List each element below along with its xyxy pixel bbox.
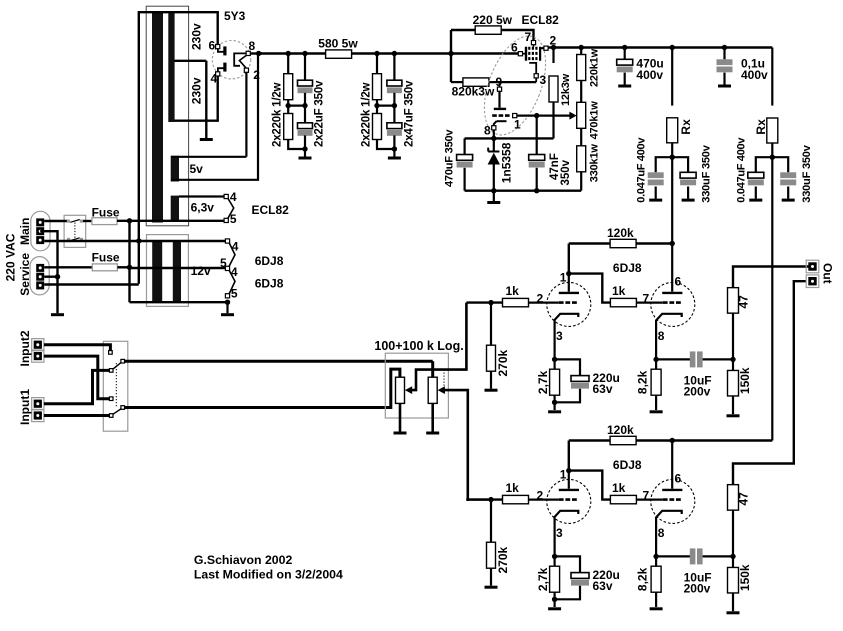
heater pin 4 (6DJ8 #1) bbox=[225, 239, 229, 243]
resistor 1k grid A U1 bbox=[503, 298, 529, 306]
wire: node to 150k U2 bbox=[732, 556, 734, 567]
junction: cathode B U2 bbox=[653, 554, 658, 559]
triode A grid dashes U2 bbox=[559, 498, 578, 501]
wire: 47nF to ground line bbox=[536, 168, 538, 191]
junction: fuse1 output bbox=[127, 218, 132, 223]
wire: filter2 cap top bbox=[393, 54, 395, 81]
svg-text:230v: 230v bbox=[189, 77, 203, 104]
svg-text:470k1w: 470k1w bbox=[589, 101, 601, 140]
capacitor 10uF 200v U1 bbox=[690, 351, 696, 367]
ECL82 pin 9 (triode grid) bbox=[497, 87, 501, 91]
svg-text:Last Modified on 3/2/2004: Last Modified on 3/2/2004 bbox=[194, 568, 343, 582]
wire: 220u bottom loop U2 bbox=[555, 586, 580, 600]
wire: Main pin3 to switch bbox=[44, 240, 83, 242]
ground (cathode A) U2 bbox=[548, 607, 561, 610]
wire: 2.7k bottom U1 bbox=[553, 395, 555, 402]
switch S2 common 1 bbox=[121, 359, 125, 363]
svg-text:220 5w: 220 5w bbox=[473, 13, 513, 27]
wire: plate A to 1k grid B U1 bbox=[569, 274, 611, 303]
wire: 12k3w to cathode node bbox=[552, 102, 554, 138]
triode B grid dashes U2 bbox=[663, 498, 682, 501]
wire: Rx1 down to 120k node bbox=[671, 143, 673, 244]
resistor 8,2k U2 bbox=[651, 566, 661, 592]
wire: 330uF to ground (1) bbox=[687, 187, 689, 199]
wire: 1k to grid B U2 bbox=[636, 499, 662, 501]
wire: switch to Fuse (main) bbox=[83, 220, 92, 222]
transformer T1 primary winding bar bbox=[152, 11, 163, 223]
wire: Input2 pin1 to NC contact bbox=[44, 345, 111, 351]
transformer T1 6.3v winding bar bbox=[171, 196, 179, 222]
svg-text:63v: 63v bbox=[593, 382, 613, 396]
wire: 8.2k to ground U2 bbox=[655, 592, 657, 607]
junction: 220k midpoint bbox=[286, 103, 291, 108]
svg-text:6: 6 bbox=[511, 41, 518, 55]
wire: Main pin1 to switch bbox=[44, 220, 67, 222]
resistor 220k1w bbox=[577, 55, 586, 81]
transformer T1 230v secondary winding bar bbox=[168, 11, 174, 122]
wire: cap bottom to ground (2) bbox=[393, 135, 395, 156]
heater pin 5 (6DJ8 #2) bbox=[225, 294, 229, 298]
wire: 10uF to 150k U1 bbox=[703, 358, 733, 360]
svg-text:ECL82: ECL82 bbox=[522, 13, 560, 27]
svg-text:Input2: Input2 bbox=[18, 330, 32, 366]
switch S2 NC contact bbox=[109, 351, 113, 355]
ground (0.047uF 1) bbox=[649, 199, 662, 202]
capacitor 47nF 350v bbox=[529, 155, 545, 168]
wire: Input1 pin1 to contact A bbox=[44, 370, 109, 403]
wire: pot2 to ground bbox=[431, 403, 434, 431]
capacitor 2x22uF 350v (upper) bbox=[298, 80, 313, 93]
wiper arrow into 470k1w bbox=[569, 112, 576, 120]
svg-text:400v: 400v bbox=[741, 68, 768, 82]
wire: heater ground stub bbox=[226, 302, 228, 313]
junction: pin8 / 5v winding / rail bbox=[256, 51, 261, 56]
wire: between 22uF caps bbox=[304, 93, 306, 123]
ECL82 grid lead stub bbox=[523, 53, 526, 55]
junction: grid A / 270k U1 bbox=[488, 300, 493, 305]
junction: filter2 bottom bbox=[392, 146, 397, 151]
wire: filter2 midpoints tie bbox=[377, 104, 394, 106]
wire: pin 8 down bbox=[493, 130, 495, 139]
wire: input to grid A U1 bbox=[466, 301, 502, 303]
triode B cathode U2 bbox=[656, 511, 682, 557]
wire: pin 9 to triode anode bbox=[498, 91, 500, 107]
triode V U1A (6DJ8) envelope bbox=[547, 282, 591, 326]
wire: pot2 top lead bbox=[431, 361, 434, 377]
svg-text:200v: 200v bbox=[684, 582, 711, 596]
wire: heater midpoint tie bbox=[130, 267, 228, 269]
svg-text:7: 7 bbox=[525, 30, 532, 44]
resistor 580 5w bbox=[326, 50, 352, 58]
wire: filter1 cap top bbox=[304, 54, 306, 81]
wire: rail to ECL82 pin 6 bbox=[451, 52, 518, 54]
svg-text:2: 2 bbox=[253, 68, 260, 82]
wire: P1 wiper to channel 1 input bbox=[411, 303, 466, 391]
wire: center tap down to ground bbox=[205, 61, 207, 138]
wire: S2 out1 to pot 2 top bbox=[125, 360, 433, 363]
5Y3 pin 8 bbox=[246, 51, 250, 55]
wire: filter1 midpoints tie bbox=[288, 104, 305, 106]
wire: node to 470uF bbox=[464, 138, 466, 154]
ground (pot1) bbox=[394, 432, 407, 435]
ECL82 pin 1 bbox=[513, 114, 517, 118]
svg-text:Fuse: Fuse bbox=[92, 206, 120, 220]
svg-text:1: 1 bbox=[560, 271, 567, 285]
connector Service bbox=[30, 257, 49, 295]
svg-text:3: 3 bbox=[556, 526, 563, 540]
switch S1 gang dotted link bbox=[74, 223, 76, 240]
ECL82 grid dashes g3 bbox=[535, 47, 537, 61]
svg-text:63v: 63v bbox=[593, 579, 613, 593]
junction: 22uF midpoint bbox=[302, 103, 307, 108]
wire: rail to 470u bbox=[624, 48, 626, 60]
wire: channel 2 B+ from Rx2 bbox=[672, 439, 772, 441]
ECL82 pin 3 (cathode) bbox=[534, 74, 538, 78]
wire: 230v winding center tap bbox=[175, 60, 207, 62]
ground (cathode A) U1 bbox=[548, 410, 561, 413]
wire: decoupling branch (2) bbox=[756, 157, 788, 172]
wire: between 220k resistors bbox=[287, 100, 289, 114]
wire: rail to 12k3w bbox=[552, 48, 554, 64]
svg-text:5v: 5v bbox=[190, 162, 204, 176]
capacitor 330uF 350v (1) bbox=[680, 172, 696, 185]
junction: 220k midpoint (2) bbox=[374, 103, 379, 108]
switch S1 lever (bottom) bbox=[70, 238, 79, 241]
ECL82 grid dashes g2 bbox=[532, 47, 534, 61]
ground (filter2) bbox=[388, 157, 401, 160]
svg-text:580 5w: 580 5w bbox=[318, 37, 358, 51]
svg-text:3: 3 bbox=[556, 329, 563, 343]
junction: Rx1 / decoupling caps bbox=[670, 155, 675, 160]
ground (8.2k) U2 bbox=[650, 607, 663, 610]
svg-text:330k1w: 330k1w bbox=[589, 144, 601, 183]
potentiometer P2 wiper arrow bbox=[438, 386, 445, 394]
wire: Service pin2 to neutral bbox=[44, 276, 57, 278]
svg-text:6DJ8: 6DJ8 bbox=[613, 261, 642, 275]
wire: filter1 resistor top bbox=[287, 54, 289, 74]
5Y3 pin 4 bbox=[216, 72, 220, 76]
wire: 230v lower winding to 5Y3 pin 4 bbox=[175, 76, 218, 121]
triode A plate lead U2 bbox=[568, 471, 570, 489]
wire: filter2 resistor top bbox=[376, 54, 378, 74]
connector Input1 bbox=[32, 398, 44, 422]
wire: regulator ground line bbox=[465, 189, 582, 191]
triode V U2B (6DJ8) envelope bbox=[651, 479, 695, 523]
heater zigzag 6DJ8 #2 bbox=[229, 270, 235, 294]
junction: rail / C 2x47uF bbox=[392, 51, 397, 56]
svg-text:6: 6 bbox=[675, 275, 682, 289]
5Y3 pin 2 bbox=[244, 68, 248, 72]
junction: 2.7k / 220u bottom U1 bbox=[552, 400, 557, 405]
svg-text:150k: 150k bbox=[738, 367, 752, 394]
heater pin 4 (ECL82) bbox=[224, 194, 228, 198]
junction: grid A / 270k U2 bbox=[488, 497, 493, 502]
capacitor 220u 63v U1 bbox=[571, 376, 589, 389]
wire: rail to 0,1u bbox=[723, 48, 725, 60]
zener diode 1n5358 bbox=[488, 148, 499, 152]
ECL82 plate bar bbox=[540, 47, 544, 61]
resistor 2x220k 1/2w (upper) bbox=[284, 74, 293, 100]
svg-text:0.047uF 400v: 0.047uF 400v bbox=[636, 137, 648, 203]
svg-text:12k3w: 12k3w bbox=[560, 73, 572, 106]
svg-text:200v: 200v bbox=[684, 385, 711, 399]
ground (mains neutral) bbox=[51, 313, 64, 316]
ECL82 pin 8 bbox=[492, 126, 496, 130]
junction: fuse2 / heater mid bbox=[127, 265, 132, 270]
wire: Input2 pin2 to contact B bbox=[44, 356, 109, 399]
svg-text:0.047uF 400v: 0.047uF 400v bbox=[736, 137, 748, 203]
triode A grid dashes U1 bbox=[559, 301, 578, 304]
wire: fuse to 6.3v pin 5 bbox=[117, 220, 226, 222]
svg-text:2x220k 1/2w: 2x220k 1/2w bbox=[360, 82, 372, 147]
svg-text:6,3v: 6,3v bbox=[191, 201, 215, 215]
junction: 12v pin5 / ground bbox=[225, 300, 230, 305]
wire: pot1 to ground bbox=[399, 403, 402, 431]
wire: 5v winding top bbox=[171, 156, 246, 158]
capacitor 10uF 200v U2 bbox=[690, 548, 696, 564]
wire: 47 to node U2 bbox=[732, 510, 734, 556]
triode A cathode U2 bbox=[555, 511, 579, 557]
svg-text:1k: 1k bbox=[612, 284, 626, 298]
ECL82 pin 6 (pentode grid) bbox=[518, 52, 522, 56]
wire: zener to ground line bbox=[493, 165, 495, 191]
resistor 2x220k 1/2w (upper,2) bbox=[373, 74, 382, 100]
svg-text:6DJ8: 6DJ8 bbox=[255, 254, 284, 268]
wire: channel 2 output to Out pin 2 bbox=[733, 281, 807, 485]
fuse F2 (Service) bbox=[92, 264, 117, 271]
wire: 270k top U2 bbox=[490, 500, 492, 543]
svg-text:2x220k 1/2w: 2x220k 1/2w bbox=[272, 82, 284, 147]
wire: S2 out2 to pot 1 top bbox=[125, 369, 400, 407]
svg-text:Rx: Rx bbox=[679, 119, 693, 135]
svg-text:6DJ8: 6DJ8 bbox=[613, 458, 642, 472]
junction: 47uF midpoint bbox=[392, 103, 397, 108]
capacitor 330uF 350v (2) bbox=[780, 172, 796, 185]
5Y3 anode lead (pin 6) bbox=[218, 49, 225, 52]
ground (150k) U2 bbox=[727, 611, 740, 614]
resistor 1k grid A U2 bbox=[503, 495, 529, 503]
switch S2 contact C bbox=[109, 414, 113, 418]
rectifier tube V1 5Y3 envelope bbox=[212, 41, 250, 79]
ECL82 triode cathode bar bbox=[497, 120, 507, 122]
junction: pin8 / zener node bbox=[491, 136, 496, 141]
capacitor 0.047uF 400v (2) bbox=[748, 172, 764, 185]
wire: 120k feedback line U1 bbox=[569, 242, 672, 244]
junction: cathode A U1 bbox=[552, 357, 557, 362]
svg-text:4: 4 bbox=[211, 71, 218, 85]
ground (330uF 1) bbox=[682, 199, 695, 202]
junction: output node U1 bbox=[730, 357, 735, 362]
svg-text:8: 8 bbox=[658, 329, 665, 343]
svg-text:1k: 1k bbox=[506, 481, 520, 495]
svg-text:330uF 350v: 330uF 350v bbox=[801, 144, 813, 202]
svg-text:220 VAC: 220 VAC bbox=[4, 233, 18, 281]
heater zigzag 6DJ8 #1 bbox=[229, 243, 235, 267]
svg-text:5: 5 bbox=[230, 212, 237, 226]
wire: transformer bottom run bbox=[130, 301, 228, 303]
switch S2 common 2 bbox=[121, 406, 125, 410]
potentiometer P1 (100k log) bbox=[396, 377, 405, 403]
triode V U1B (6DJ8) envelope bbox=[651, 282, 695, 326]
svg-text:1: 1 bbox=[560, 468, 567, 482]
capacitor 2x22uF 350v (lower) bbox=[298, 123, 313, 136]
ground (filter1) bbox=[299, 157, 312, 160]
wire: 1k to grid A U1 bbox=[529, 302, 559, 304]
wire: 270k to ground U1 bbox=[490, 371, 492, 389]
junction: rail / C 2x22uF bbox=[302, 51, 307, 56]
svg-text:ECL82: ECL82 bbox=[252, 203, 290, 217]
wire: regulated B+ rail bbox=[548, 46, 772, 48]
ground (270k) U1 bbox=[485, 389, 498, 392]
svg-text:Fuse: Fuse bbox=[92, 251, 120, 265]
transformer T2 primary winding bar bbox=[152, 241, 162, 303]
wire: cathode B to 8.2k U2 bbox=[655, 556, 657, 566]
junction: neutral bus bbox=[55, 274, 60, 279]
5Y3 filament bracket bbox=[234, 53, 246, 65]
svg-text:6: 6 bbox=[675, 472, 682, 486]
heater pin 5 (ECL82) bbox=[224, 218, 228, 222]
wire: Main pin2 to neutral bus bbox=[40, 231, 57, 276]
wire: cathode B to 8.2k U1 bbox=[655, 359, 657, 369]
wire: input to grid A U2 bbox=[466, 498, 502, 500]
switch S1 contacts bbox=[67, 220, 83, 242]
wire: 150k to ground U2 bbox=[732, 593, 734, 611]
wire: to ground U1 bbox=[553, 402, 555, 410]
junction: Rx2 / decoupling caps bbox=[770, 155, 775, 160]
svg-text:3: 3 bbox=[540, 73, 547, 87]
connector Out bbox=[806, 260, 819, 287]
svg-text:Out: Out bbox=[821, 263, 835, 284]
junction: pin1 / 47nF bbox=[534, 113, 539, 118]
junction: rail / 12k3w bbox=[551, 45, 556, 50]
junction: rail / divider bbox=[579, 45, 584, 50]
wire: cathode to 2.7k U2 bbox=[553, 556, 555, 566]
resistor 220 5w bbox=[475, 26, 501, 34]
svg-text:8,2k: 8,2k bbox=[636, 567, 650, 591]
junction: 120k / Rx drop U2 bbox=[670, 438, 675, 443]
fuse F1 (Main) bbox=[92, 218, 117, 225]
wire: to ground U2 bbox=[553, 599, 555, 607]
wire: T2 primary top / 12v pin 4 bbox=[139, 240, 228, 242]
switch S2 gang dotted link bbox=[115, 363, 117, 408]
transformer T2 (12v) outline box bbox=[147, 235, 189, 307]
5Y3 anode plate (lower diode) bbox=[223, 63, 226, 72]
wire: Service pin1 to Fuse2 bbox=[44, 266, 92, 268]
junction: rail / 0,1u bbox=[722, 45, 727, 50]
junction: 2.7k / 220u bottom U2 bbox=[552, 597, 557, 602]
ground (0,1u) bbox=[718, 85, 731, 88]
wire: 120k to triode A plate node U1 bbox=[568, 244, 570, 274]
svg-text:5: 5 bbox=[220, 256, 227, 270]
triode B plate lead U1 bbox=[671, 244, 673, 292]
triode/pentode tube V2 ECL82 envelope bbox=[472, 28, 558, 144]
ground (0.047uF 2) bbox=[749, 199, 762, 202]
resistor 47 U1 bbox=[728, 288, 739, 314]
junction: rail / 470u bbox=[622, 45, 627, 50]
wire: Fuse2 to heater mid bbox=[117, 266, 129, 268]
switch S2 (input selector) box bbox=[103, 341, 128, 431]
triode A plate bar U1 bbox=[559, 292, 579, 294]
svg-text:120k: 120k bbox=[607, 423, 634, 437]
wire: 47 to node U1 bbox=[732, 313, 734, 359]
wire: 150k to ground U1 bbox=[732, 396, 734, 414]
potentiometer box bbox=[385, 353, 448, 418]
svg-text:120k: 120k bbox=[607, 226, 634, 240]
svg-text:5Y3: 5Y3 bbox=[224, 9, 246, 23]
svg-text:1k: 1k bbox=[612, 481, 626, 495]
potentiometer P2 (100k log) bbox=[428, 377, 437, 403]
svg-text:8: 8 bbox=[484, 124, 491, 138]
svg-text:150k: 150k bbox=[738, 564, 752, 591]
capacitor 470u 400v bbox=[617, 59, 633, 72]
resistor 2,7k U2 bbox=[550, 566, 560, 592]
resistor 47 U2 bbox=[728, 485, 739, 511]
wire: 220u bottom loop U1 bbox=[555, 389, 580, 403]
svg-text:400v: 400v bbox=[636, 68, 663, 82]
svg-text:270k: 270k bbox=[496, 546, 510, 573]
wire: to 220 ohm resistor bbox=[451, 29, 475, 31]
triode A plate lead U1 bbox=[568, 274, 570, 292]
potentiometer P1 wiper arrow bbox=[405, 386, 412, 394]
svg-text:1n5358: 1n5358 bbox=[500, 142, 514, 183]
wire: ground stub bbox=[493, 191, 495, 201]
switch S2 contact B bbox=[109, 397, 113, 401]
resistor 270k U2 bbox=[487, 542, 496, 568]
wire: 220 ohm to pin 7 bbox=[502, 30, 534, 41]
ground (230v center tap) bbox=[200, 138, 213, 141]
wire: 6.3v winding top to pin 4 bbox=[179, 195, 224, 197]
ECL82 cathode bar bbox=[525, 47, 527, 61]
ground (150k) U1 bbox=[727, 414, 740, 417]
triode A plate bar U2 bbox=[559, 489, 579, 491]
5Y3 filament vee bbox=[239, 55, 247, 69]
wire: cathode node horizontal bbox=[465, 137, 554, 139]
resistor 120k U2 bbox=[610, 436, 636, 444]
transformer T2 12v secondary winding bar bbox=[173, 241, 181, 303]
junction: cathode A U2 bbox=[552, 554, 557, 559]
svg-text:Input1: Input1 bbox=[18, 389, 32, 425]
triode B plate lead U2 bbox=[671, 441, 673, 489]
wire: B+ rail (unregulated) bbox=[259, 52, 451, 54]
junction: zener / ground line bbox=[491, 188, 496, 193]
switch S1 (mains) box bbox=[64, 215, 86, 247]
svg-text:1: 1 bbox=[514, 118, 521, 132]
wire: Rx2 down to channel 2 bbox=[771, 143, 773, 441]
pot gang dotted link bbox=[443, 373, 445, 389]
resistor Rx (channel 2) bbox=[767, 118, 778, 143]
connector Main bbox=[31, 211, 50, 251]
wire: pin 3 to 820k line bbox=[535, 78, 537, 82]
wire: to 220u cap U1 bbox=[555, 359, 580, 375]
svg-text:12v: 12v bbox=[191, 264, 211, 278]
switch S2 lever 1 bbox=[113, 362, 122, 369]
ground (heater) bbox=[221, 313, 234, 316]
wire: left bus vertical bbox=[128, 221, 130, 302]
wire: channel 1 output to Out pin 1 bbox=[733, 267, 810, 288]
capacitor 2x47uF 350v (upper) bbox=[387, 80, 402, 93]
wire: 1k to grid B U1 bbox=[636, 302, 662, 304]
svg-text:470uF 350v: 470uF 350v bbox=[444, 129, 456, 187]
resistor 470k1w bbox=[577, 102, 586, 128]
resistor 1k grid B U2 bbox=[610, 495, 636, 503]
svg-text:2,7k: 2,7k bbox=[536, 370, 550, 394]
ECL82 triode anode bar bbox=[494, 108, 506, 110]
wire: rail to 220k1w bbox=[580, 48, 582, 55]
wire: 470u to ground bbox=[624, 73, 626, 85]
wire: 5v winding bottom to pin 8 node bbox=[171, 55, 258, 180]
resistor 2,7k U1 bbox=[550, 369, 560, 395]
switch S2 contact A bbox=[109, 369, 113, 373]
